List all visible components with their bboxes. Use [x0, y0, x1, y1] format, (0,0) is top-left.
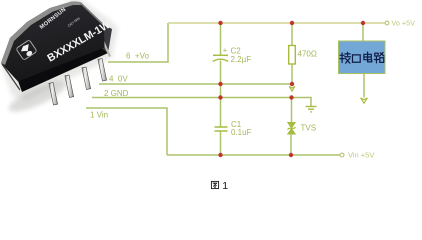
svg-text:470Ω: 470Ω — [298, 49, 317, 58]
svg-text:1 Vin: 1 Vin — [90, 110, 108, 119]
module U1 top edge highlight — [1, 2, 82, 66]
photo background halo — [0, 0, 118, 100]
junction dot top rail at resistor branch — [290, 21, 294, 25]
junction dot bottom rail at capacitor branch — [218, 153, 222, 157]
wire bottom rail Vin — [167, 154, 340, 156]
interface circuit box — [339, 41, 386, 74]
module U1 left end edge — [2, 64, 20, 90]
module U1 pin 6 (photo) — [98, 59, 107, 81]
module U1 right end face — [100, 25, 112, 53]
wire GND rail pin 2 — [92, 98, 311, 107]
junction dot top rail at capacitor branch — [218, 21, 222, 25]
wire 0V rail pin 4 — [99, 83, 292, 85]
junction dot 0V rail at capacitor branch — [218, 82, 222, 86]
interface circuit text (Chinese glyphs drawn) — [340, 52, 384, 63]
module U1 logo — [16, 40, 37, 61]
module U1 pin 4 (photo) — [82, 67, 91, 89]
module U1 end face edge glint — [104, 42, 111, 57]
svg-text:1: 1 — [222, 180, 228, 192]
wire resistor branch lower — [291, 64, 293, 84]
module U1 shadow — [5, 75, 70, 117]
capacitor C1 top plate — [215, 126, 228, 128]
module U1 pin 2 (photo) — [65, 75, 74, 97]
junction dot GND rail at capacitor branch — [218, 95, 222, 99]
svg-text:TVS: TVS — [301, 124, 317, 133]
wire interface box bottom — [363, 74, 365, 98]
module U1 broad face — [1, 2, 105, 82]
svg-text:2.2µF: 2.2µF — [231, 55, 252, 64]
svg-text:2 GND: 2 GND — [104, 89, 129, 98]
power port arrow below interface box — [361, 98, 368, 103]
terminal node Vo +5V — [385, 21, 389, 25]
svg-text:0.1uF: 0.1uF — [231, 128, 252, 137]
wire interface box top — [362, 23, 364, 41]
capacitor C1 bottom plate — [215, 130, 228, 132]
wire capacitor branch upper — [220, 23, 222, 55]
capacitor C2 top plate — [213, 54, 228, 56]
junction dot GND rail at TVS branch — [289, 95, 293, 99]
svg-text:4 0V: 4 0V — [109, 75, 128, 84]
junction dot top rail at interface box — [361, 21, 365, 25]
wire TVS branch upper — [291, 98, 293, 123]
wire +Vo pin 6 horizontal — [108, 23, 168, 62]
wire resistor branch upper — [291, 23, 293, 46]
wire top rail Vo — [168, 22, 385, 24]
svg-text:Vin +5V: Vin +5V — [348, 151, 374, 160]
svg-text:C2: C2 — [231, 46, 242, 55]
module U1 pin 1 (photo) — [49, 83, 58, 105]
module U1 end top edge highlight — [81, 3, 105, 26]
wire TVS branch lower — [290, 134, 292, 155]
power port arrow below resistor — [289, 86, 295, 91]
svg-text:Vo +5V: Vo +5V — [392, 19, 416, 28]
resistor R1 body — [289, 46, 296, 65]
module U1 bottom thin face — [18, 47, 108, 92]
wire capacitor branch lower — [220, 131, 222, 155]
TVS diode D1 — [288, 123, 296, 135]
svg-text:+: + — [223, 46, 228, 55]
capacitor C2 bottom curved plate — [213, 59, 228, 61]
ground symbol right of GND rail — [306, 107, 317, 112]
junction dot bottom rail at TVS branch — [289, 153, 293, 157]
svg-text:6 +Vo: 6 +Vo — [126, 52, 149, 61]
wire capacitor branch middle — [220, 61, 222, 128]
junction dot 0V rail at resistor branch — [290, 82, 294, 86]
wire Vin pin 1 — [86, 108, 167, 155]
caption figure 1 — [211, 181, 218, 188]
terminal node Vin +5V — [340, 153, 344, 157]
